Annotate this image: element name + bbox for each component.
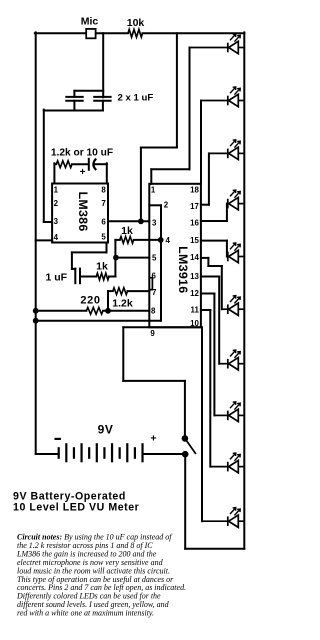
wire pin11 to LED9 xyxy=(201,309,210,311)
left rail (battery minus) xyxy=(35,32,37,454)
wire V+ to top rail xyxy=(176,33,178,147)
svg-text:3: 3 xyxy=(152,218,157,227)
junction rail 220 xyxy=(33,308,39,314)
wire 1.2k to LM3916 pin7 xyxy=(128,290,150,292)
wire pin15 to LED5 xyxy=(201,240,227,242)
wire cap tops xyxy=(74,90,103,92)
svg-text:red with a white one at maximu: red with a white one at maximum intensit… xyxy=(17,609,154,618)
microphone Mic xyxy=(86,29,95,38)
resistor 1.2k feedback xyxy=(56,161,72,168)
capacitor 10uF polarized xyxy=(88,159,90,170)
LED D4 xyxy=(227,190,244,210)
svg-text:2 x 1 uF: 2 x 1 uF xyxy=(118,93,154,104)
wire battery plus down xyxy=(184,454,186,549)
resistor 10k xyxy=(128,30,143,38)
svg-text:8: 8 xyxy=(101,186,106,195)
svg-text:+: + xyxy=(80,167,86,178)
wire V+ riser xyxy=(140,148,142,222)
wire cap to 1k xyxy=(80,276,96,278)
wire pin6 pin7 link xyxy=(150,278,153,290)
wire pin17 to LED3 xyxy=(201,204,209,206)
wire output down to 1uF xyxy=(71,252,73,269)
resistor 1.2k xyxy=(113,288,128,295)
junction node pin4 xyxy=(158,237,164,243)
svg-text:1k: 1k xyxy=(96,261,108,273)
svg-text:7: 7 xyxy=(101,199,106,208)
svg-text:15: 15 xyxy=(190,236,199,245)
wire LM386 pin5 down xyxy=(106,243,108,253)
svg-text:4: 4 xyxy=(166,236,171,245)
label minus xyxy=(56,438,60,440)
op-amp U1 LM386 xyxy=(52,184,108,243)
resistor 1k to pin4 xyxy=(115,239,119,241)
wire pin14 to LED6 xyxy=(201,257,209,259)
svg-text:6: 6 xyxy=(101,218,106,227)
svg-text:5: 5 xyxy=(152,254,157,263)
svg-text:8: 8 xyxy=(151,307,156,316)
svg-text:18: 18 xyxy=(190,186,199,195)
wire riser to junction xyxy=(114,258,116,277)
wire into LM386 pin3 xyxy=(44,221,52,223)
stub down to LM386 pin8 xyxy=(106,163,108,183)
wire cap to pin8 stub xyxy=(95,163,107,165)
capacitor 1uF xyxy=(74,269,76,284)
wire junction up to 1k xyxy=(114,240,116,258)
LED D9 xyxy=(210,453,244,473)
svg-text:Mic: Mic xyxy=(81,16,99,28)
svg-text:3: 3 xyxy=(54,217,59,226)
svg-text:1 uF: 1 uF xyxy=(46,271,68,283)
resistor 220 xyxy=(86,307,103,314)
wire caps bottom xyxy=(44,110,103,112)
svg-text:4: 4 xyxy=(54,233,59,242)
wire rail to 220 xyxy=(36,310,87,312)
wire V+ horizontal xyxy=(141,147,177,149)
junction node divider xyxy=(105,308,111,314)
svg-text:10 Level LED VU Meter: 10 Level LED VU Meter xyxy=(13,502,139,514)
wire resistor to cap xyxy=(72,163,89,165)
wire LM3916 pin9 to switch xyxy=(123,326,201,328)
svg-text:220: 220 xyxy=(80,295,100,307)
svg-text:1.2k or 10 uF: 1.2k or 10 uF xyxy=(51,147,113,158)
resistor 1k series xyxy=(96,273,109,280)
svg-text:13: 13 xyxy=(190,272,199,281)
LED D2 xyxy=(201,87,244,107)
right rail (LED anode bus) xyxy=(243,32,245,548)
capacitor C1 2x1uF plates xyxy=(66,96,82,98)
wire mic junction down to caps xyxy=(102,33,104,97)
svg-text:5: 5 xyxy=(101,233,106,242)
svg-text:10k: 10k xyxy=(127,17,145,29)
wire pin18 to LED2 xyxy=(200,101,202,184)
svg-text:12: 12 xyxy=(190,289,199,298)
wire divider riser xyxy=(107,291,109,311)
svg-text:1: 1 xyxy=(54,186,59,195)
wire mic to 10k xyxy=(96,32,128,34)
svg-text:17: 17 xyxy=(190,202,199,211)
stub down to LM386 pin1 xyxy=(53,163,55,183)
stub cap1 bottom xyxy=(73,101,75,111)
LED D7 xyxy=(219,350,244,370)
wire battery plus lead xyxy=(143,453,186,455)
wire output left xyxy=(72,251,107,253)
svg-text:9: 9 xyxy=(150,329,155,338)
LED D10 xyxy=(202,508,244,528)
wire 10k to right rail xyxy=(143,32,245,34)
svg-text:LM3916: LM3916 xyxy=(176,246,190,293)
wire pin16 to LED4 xyxy=(201,220,227,222)
LED D8 xyxy=(214,402,244,422)
LED D5 xyxy=(227,243,244,263)
wire pin13 to LED7 xyxy=(201,276,219,278)
op-amp U2 LM3916 xyxy=(149,184,201,327)
wire top from left rail to mic xyxy=(35,32,86,34)
LED D1 xyxy=(190,34,245,54)
wire to cap plate xyxy=(72,268,75,270)
wire bottom to right rail xyxy=(185,548,244,550)
wire 1k to riser xyxy=(109,276,115,278)
svg-text:9V: 9V xyxy=(98,423,114,437)
wire junction to LM3916 pin5 xyxy=(116,257,149,259)
svg-text:+: + xyxy=(150,433,156,445)
junction rail ground xyxy=(33,318,39,324)
svg-text:1: 1 xyxy=(151,186,156,195)
svg-text:14: 14 xyxy=(190,253,199,262)
wire 1k into LM3916 pin4 xyxy=(134,239,161,241)
wire LM3916 pin2 net xyxy=(149,204,161,206)
svg-text:LM386: LM386 xyxy=(76,191,90,231)
switch S1 xyxy=(182,435,189,442)
wire LM3916 pin1 to LED1 xyxy=(150,169,152,184)
wire pin1 stub to resistor xyxy=(54,163,56,165)
capacitor C2 2x1uF plates xyxy=(94,96,110,98)
junction node V+ xyxy=(138,218,144,224)
wire rail ground into LM3916 xyxy=(36,320,161,322)
svg-text:1.2k: 1.2k xyxy=(112,298,133,310)
svg-text:2: 2 xyxy=(164,200,169,209)
junction node signal xyxy=(113,255,119,261)
LED D6 xyxy=(222,296,245,316)
wire left rail to LM386 pin4 (gnd) xyxy=(36,239,52,241)
wire caps to LM386 pin3 xyxy=(43,110,45,222)
svg-text:11: 11 xyxy=(191,306,200,315)
svg-text:1k: 1k xyxy=(121,225,133,237)
wire pin10 to LED10 xyxy=(201,327,203,521)
svg-text:16: 16 xyxy=(190,219,199,228)
svg-text:2: 2 xyxy=(54,199,59,208)
stub cap2 bottom xyxy=(102,101,104,111)
wire pin12 to LED8 xyxy=(201,293,215,295)
wire rail to battery minus xyxy=(36,453,58,455)
stub cap1 top xyxy=(73,91,75,97)
wire LM386 pin6 to LM3916 pin3 xyxy=(108,220,149,222)
LED D3 xyxy=(209,140,244,160)
wire 220 to LM3916 pin8 xyxy=(103,310,149,312)
